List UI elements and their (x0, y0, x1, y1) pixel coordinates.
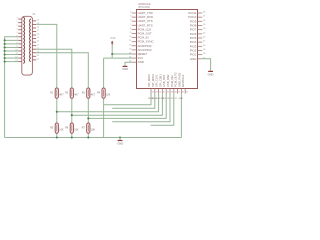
wire stair4 (72, 94, 163, 116)
svg-text:37: 37 (178, 92, 180, 94)
resistor R4 (97, 88, 111, 98)
svg-text:R6: R6 (65, 127, 69, 130)
svg-text:41: 41 (163, 92, 165, 94)
svg-text:22: 22 (203, 36, 206, 38)
wire net1 (36, 24, 57, 137)
svg-text:24: 24 (37, 55, 40, 57)
ground G1 (module GND pin) (122, 62, 131, 71)
svg-text:39: 39 (171, 92, 174, 94)
ground G3 (bottom rail) (117, 138, 123, 146)
svg-text:38: 38 (174, 92, 177, 94)
svg-text:3.3V: 3.3V (110, 36, 116, 40)
svg-text:PCM_IN: PCM_IN (138, 36, 149, 40)
svg-text:26: 26 (203, 20, 206, 22)
svg-text:10: 10 (129, 36, 132, 38)
svg-text:GND: GND (208, 72, 214, 76)
svg-text:25: 25 (37, 58, 40, 60)
svg-text:19: 19 (37, 37, 40, 39)
resistor R1 (50, 88, 64, 98)
svg-text:PIO1: PIO1 (190, 53, 197, 57)
svg-text:GND: GND (122, 67, 128, 71)
svg-text:UART_RXD: UART_RXD (138, 15, 153, 19)
svg-text:USB_DP2: USB_DP2 (162, 74, 166, 87)
module right pins (198, 13, 203, 59)
svg-text:PCM_IN2: PCM_IN2 (170, 75, 174, 87)
svg-text:PIO11: PIO11 (188, 11, 196, 15)
junction VCC (111, 53, 113, 55)
svg-text:PIO6: PIO6 (190, 32, 197, 36)
svg-text:SPI_MOSI: SPI_MOSI (147, 74, 151, 87)
resistor R5 (50, 123, 64, 133)
svg-text:GND_PAD2: GND_PAD2 (177, 72, 181, 87)
svg-text:SPI_CLK1: SPI_CLK1 (155, 74, 159, 87)
svg-text:P1: P1 (175, 98, 177, 100)
svg-text:PIO4: PIO4 (190, 40, 197, 44)
module left pins (132, 13, 137, 62)
svg-text:3: 3 (16, 25, 18, 27)
resistor R3 (82, 88, 96, 98)
wire stair3 (57, 94, 159, 112)
svg-text:21: 21 (203, 41, 206, 43)
junction dots mid band (56, 111, 121, 139)
svg-text:AIO0/PIO2: AIO0/PIO2 (138, 44, 152, 48)
svg-text:BTM-0909: BTM-0909 (139, 6, 151, 9)
svg-text:10K: 10K (74, 129, 79, 132)
svg-text:21: 21 (37, 44, 39, 46)
svg-text:18: 18 (37, 34, 40, 36)
svg-text:23: 23 (203, 32, 206, 34)
svg-text:NC/PIO12: NC/PIO12 (181, 74, 185, 87)
svg-text:10K: 10K (106, 94, 111, 97)
svg-text:13: 13 (129, 48, 132, 50)
svg-text:PIO8: PIO8 (190, 23, 197, 27)
wire module GND to bottom rail (180, 94, 182, 138)
svg-text:PCM_SYNC: PCM_SYNC (138, 40, 154, 44)
resistor R7 (82, 123, 96, 133)
svg-text:GND: GND (179, 98, 184, 100)
resistor R6 (65, 123, 79, 133)
svg-text:5: 5 (16, 32, 18, 34)
wire stair1 (104, 94, 151, 105)
svg-text:SPI_MISO: SPI_MISO (151, 74, 155, 87)
svg-text:44: 44 (152, 92, 155, 94)
svg-text:20: 20 (203, 45, 206, 47)
svg-text:4K7: 4K7 (74, 94, 79, 97)
svg-text:24: 24 (203, 28, 206, 30)
svg-text:1: 1 (16, 18, 17, 20)
svg-text:PCM_OUT: PCM_OUT (138, 32, 152, 36)
svg-text:28: 28 (203, 12, 206, 14)
svg-text:40: 40 (167, 92, 170, 94)
svg-text:R4: R4 (97, 92, 101, 95)
svg-text:PIO10: PIO10 (188, 15, 197, 19)
svg-text:36: 36 (182, 92, 185, 94)
svg-text:10K: 10K (59, 129, 64, 132)
svg-text:PIO2: PIO2 (190, 48, 197, 52)
wire stair2 (112, 94, 155, 109)
svg-text:PIO7: PIO7 (190, 28, 197, 32)
svg-text:43: 43 (155, 92, 158, 94)
svg-text:12: 12 (129, 44, 132, 46)
wire VCC net (104, 45, 132, 137)
svg-text:4K7: 4K7 (59, 94, 64, 97)
svg-text:MODULE: MODULE (139, 2, 151, 6)
svg-text:2: 2 (16, 21, 17, 23)
svg-text:18: 18 (203, 53, 206, 55)
svg-text:R1: R1 (50, 92, 54, 95)
wire stair6 (112, 94, 170, 122)
wire stair7 (151, 94, 174, 126)
svg-text:19: 19 (203, 49, 206, 51)
svg-text:16: 16 (37, 27, 40, 29)
wire stair5 (88, 94, 166, 119)
svg-text:PIO3: PIO3 (190, 44, 197, 48)
svg-text:3V3: 3V3 (138, 56, 144, 60)
svg-text:USB_DN2: USB_DN2 (166, 74, 170, 87)
wire GND bus (5, 37, 19, 138)
svg-text:AIO1/PIO3: AIO1/PIO3 (138, 48, 152, 52)
svg-text:PIO9: PIO9 (190, 19, 197, 23)
supply +3.3V (110, 36, 116, 45)
ground G2 (right GND pin) (202, 59, 213, 77)
svg-text:25: 25 (203, 24, 206, 26)
svg-text:42: 42 (159, 92, 161, 94)
svg-text:4: 4 (16, 28, 18, 30)
svg-text:4K7: 4K7 (91, 94, 96, 97)
svg-text:UART_CTS: UART_CTS (138, 19, 153, 23)
svg-text:R5: R5 (50, 127, 54, 130)
svg-text:27: 27 (203, 16, 206, 18)
resistor R2 (65, 88, 79, 98)
svg-text:UART_TXD: UART_TXD (138, 11, 153, 15)
net labels under module bottom pins (148, 98, 183, 100)
svg-text:SPI_CSB1: SPI_CSB1 (158, 74, 162, 87)
svg-text:R3: R3 (82, 92, 86, 95)
module U1 BTM-222 (137, 2, 198, 88)
svg-text:35: 35 (186, 92, 189, 94)
module bottom pins (151, 89, 185, 94)
svg-text:PCM_CLK: PCM_CLK (138, 27, 152, 31)
svg-text:10K: 10K (91, 129, 96, 132)
svg-text:GND: GND (190, 57, 196, 61)
svg-text:UART_RTS: UART_RTS (138, 23, 153, 27)
svg-text:17: 17 (37, 30, 39, 32)
svg-text:R2: R2 (65, 92, 69, 95)
connector X1 (18, 16, 36, 75)
svg-text:GND: GND (138, 60, 144, 64)
wire net3 (36, 53, 88, 138)
wire GND bottom (5, 137, 182, 139)
wire net2 (36, 49, 72, 137)
junction dots on GND bus (4, 39, 6, 62)
svg-text:GND: GND (117, 142, 123, 146)
svg-text:PIO5: PIO5 (190, 36, 197, 40)
svg-text:X1: X1 (32, 12, 36, 16)
svg-text:14: 14 (37, 19, 40, 21)
svg-text:RESET: RESET (138, 52, 148, 56)
svg-text:R7: R7 (82, 127, 86, 130)
svg-text:20: 20 (37, 41, 40, 43)
svg-text:PCM_OUT2: PCM_OUT2 (174, 72, 178, 87)
